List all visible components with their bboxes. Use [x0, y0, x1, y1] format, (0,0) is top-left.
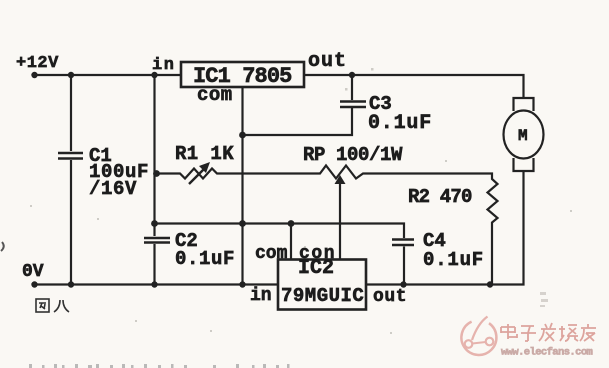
svg-text:0.1uF: 0.1uF	[175, 248, 235, 270]
svg-text:R2 470: R2 470	[408, 186, 472, 208]
svg-text:com: com	[197, 84, 233, 106]
svg-text:RP 100/1W: RP 100/1W	[303, 144, 403, 166]
svg-text:in: in	[250, 286, 272, 306]
svg-text:/16V: /16V	[89, 178, 137, 200]
svg-text:0.1uF: 0.1uF	[368, 112, 432, 135]
svg-text:+12V: +12V	[16, 54, 59, 73]
svg-text:in: in	[152, 56, 175, 75]
svg-text:0V: 0V	[22, 262, 44, 282]
svg-text:com: com	[255, 244, 288, 264]
svg-text:out: out	[308, 50, 347, 73]
svg-text:R1 1K: R1 1K	[175, 143, 234, 165]
svg-text:www.elecfans.com: www.elecfans.com	[501, 347, 593, 359]
svg-text:M: M	[518, 127, 528, 145]
svg-text:IC2: IC2	[298, 257, 334, 280]
svg-text:out: out	[373, 287, 407, 307]
svg-text:0.1uF: 0.1uF	[423, 249, 484, 271]
svg-text:79MGUIC: 79MGUIC	[281, 285, 364, 307]
